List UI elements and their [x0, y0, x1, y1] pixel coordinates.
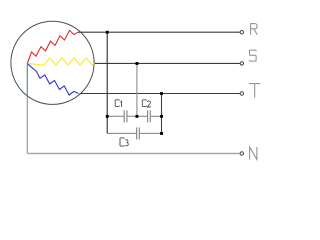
- wire: row 2 right segment: [140, 132, 162, 134]
- wire: row 1 left segment: [107, 115, 124, 117]
- label C2: [142, 100, 151, 107]
- wire: vertical from R line to capacitor row: [106, 32, 108, 133]
- label R: [251, 24, 258, 35]
- winding V (yellow zigzag): [27, 58, 95, 65]
- label T: [249, 84, 260, 98]
- terminal T: [240, 92, 243, 95]
- wire: S line: [95, 62, 241, 64]
- terminal R: [240, 31, 243, 34]
- junction row1 right: [160, 115, 163, 118]
- label C3: [120, 138, 128, 146]
- wire: R line: [78, 31, 240, 33]
- junction on T line: [160, 92, 163, 95]
- capacitor C1: [124, 110, 127, 122]
- wire: row 1 middle segment: [127, 115, 147, 117]
- terminal S: [240, 62, 243, 65]
- wire: row 2 left segment: [107, 132, 136, 134]
- wire: vertical from S line to C1-C2 node: [136, 63, 138, 116]
- terminal N: [240, 152, 243, 155]
- star-point lead (green wire): [26, 63, 28, 98]
- wire: neutral vertical below circle: [26, 98, 28, 154]
- wire: row 1 right segment: [151, 115, 162, 117]
- junction on R line: [106, 31, 109, 34]
- label N: [250, 147, 257, 160]
- winding W (blue zigzag): [27, 64, 78, 95]
- label C1: [115, 100, 121, 107]
- junction row2 right: [160, 132, 163, 135]
- junction on S line: [136, 62, 139, 65]
- junction row1 left: [106, 115, 109, 118]
- wire: N line horizontal: [27, 153, 240, 155]
- label S: [250, 50, 257, 61]
- capacitor C3: [137, 127, 140, 139]
- junction row1 middle: [136, 115, 139, 118]
- capacitor C2: [148, 110, 151, 122]
- wire: T line: [80, 93, 241, 95]
- winding U (red zigzag): [28, 30, 79, 63]
- wire: vertical from T line to capacitor rows: [161, 94, 163, 134]
- motor stator circle M1: [11, 21, 94, 104]
